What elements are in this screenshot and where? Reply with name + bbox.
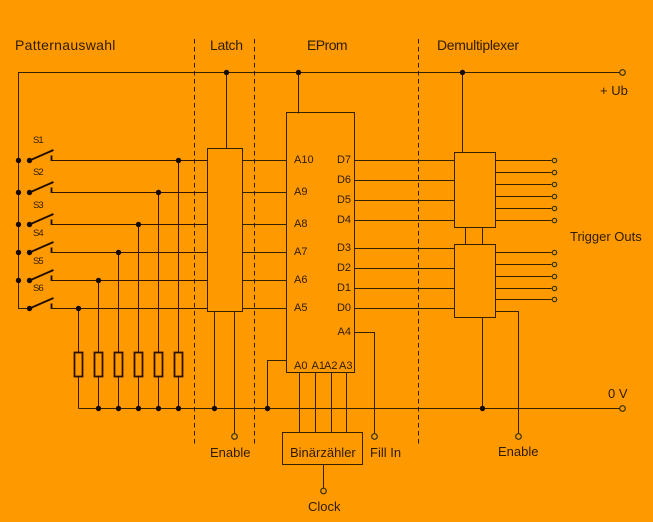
wire tap S1 to R6 (178, 161, 180, 353)
resistor R4 (135, 353, 143, 377)
switch levers and contacts (30, 150, 54, 309)
wire S3 row (52, 224, 208, 226)
wire D7 (355, 160, 455, 162)
svg-text:D4: D4 (337, 214, 351, 226)
wire latch-eprom A5 (243, 308, 287, 310)
node S2 bus (16, 190, 21, 195)
switch S6 contact (51, 304, 53, 310)
node S3 bus (16, 222, 21, 227)
switch S1 lever (30, 150, 54, 161)
switch S2 contact (51, 188, 53, 194)
svg-text:0 V: 0 V (608, 386, 628, 401)
svg-text:D0: D0 (337, 302, 351, 314)
wire D1 (355, 288, 455, 290)
resistor R5 (155, 353, 163, 377)
node S1 pole (27, 158, 32, 163)
terminal trigger 8 (552, 262, 556, 266)
node S4 pole (27, 250, 32, 255)
wire demux lower to 0V (482, 318, 484, 409)
node S3 pole (27, 222, 32, 227)
wire demux top to +Ub (462, 73, 464, 153)
wire tap S6 to R1 (78, 309, 80, 353)
terminal trigger 7 (552, 250, 556, 254)
svg-text:EProm: EProm (307, 37, 347, 53)
svg-text:S4: S4 (33, 228, 43, 239)
terminal fill in (372, 434, 378, 440)
svg-text:Enable: Enable (498, 444, 538, 459)
svg-text:A9: A9 (294, 186, 307, 198)
latch U1 (208, 149, 243, 312)
svg-text:Demultiplexer: Demultiplexer (437, 37, 519, 53)
node S3 tap (136, 222, 141, 227)
node latch top rail (224, 70, 229, 75)
wire tap S5 to R2 (98, 281, 100, 353)
demultiplexer U3 upper (455, 153, 496, 228)
switch S6 lever (30, 298, 54, 309)
wire latch-eprom A9 (243, 192, 287, 194)
wire latch-eprom A10 (243, 160, 287, 162)
wire D3 (355, 248, 455, 250)
terminal clock (321, 488, 327, 494)
wire demux interconnect right (482, 228, 484, 245)
section divider dashed line 3 (418, 39, 420, 444)
svg-text:A1: A1 (312, 360, 325, 372)
node demux 0V (480, 406, 485, 411)
node R6 0V (176, 406, 181, 411)
wire trigger out 4 (496, 196, 552, 198)
svg-text:S1: S1 (33, 135, 43, 146)
wire D2 (355, 268, 455, 270)
resistor R3 (115, 353, 123, 377)
terminal latch enable (232, 434, 238, 440)
terminal circles (232, 70, 626, 494)
resistor R6 (175, 353, 183, 377)
wire clock (323, 465, 325, 489)
node R3 0V (116, 406, 121, 411)
wire R5 bottom to 0V (158, 377, 160, 409)
wire latch enable (234, 312, 236, 434)
node eprom 0V (265, 406, 270, 411)
terminal trigger 5 (552, 206, 556, 210)
wire A2 to counter (331, 373, 333, 433)
svg-text:Latch: Latch (210, 37, 243, 53)
node S4 bus (16, 250, 21, 255)
svg-text:A5: A5 (294, 302, 307, 314)
svg-text:D3: D3 (337, 242, 351, 254)
node R2 0V (96, 406, 101, 411)
svg-text:+ Ub: + Ub (600, 83, 628, 98)
svg-text:Enable: Enable (210, 445, 250, 460)
node S6 pole (27, 306, 32, 311)
terminal trigger 3 (552, 182, 556, 186)
terminal trigger 1 (552, 158, 556, 162)
wire R6 bottom to 0V (178, 377, 180, 409)
node S6 tap (76, 306, 81, 311)
switch S3 contact (51, 220, 53, 226)
svg-text:Patternauswahl: Patternauswahl (15, 37, 116, 53)
wire S2 row (52, 192, 208, 194)
svg-text:S6: S6 (33, 283, 43, 294)
terminal trigger 11 (552, 297, 556, 301)
section divider dashed line 1 (194, 39, 196, 444)
wire latch-eprom A7 (243, 252, 287, 254)
wire R3 bottom to 0V (118, 377, 120, 409)
node S4 tap (116, 250, 121, 255)
wire tap S4 to R3 (118, 253, 120, 353)
svg-text:Clock: Clock (308, 499, 341, 514)
switch S2 lever (30, 182, 54, 193)
wire A4 to Fill In (355, 333, 375, 434)
demultiplexer U4 lower (455, 245, 496, 318)
node eprom top rail (296, 70, 301, 75)
svg-text:Fill In: Fill In (370, 445, 401, 460)
wire A0 to counter (299, 373, 301, 433)
node S5 tap (96, 278, 101, 283)
resistor R1 (75, 353, 83, 377)
wire S6 row (52, 308, 208, 310)
svg-text:D5: D5 (337, 194, 351, 206)
switch S3 lever (30, 214, 54, 225)
wire trigger out 8 (496, 264, 552, 266)
node S2 pole (27, 190, 32, 195)
binary counter U5 (283, 433, 363, 465)
node latch 0V (212, 406, 217, 411)
terminal demux enable (516, 434, 522, 440)
node S2 tap (156, 190, 161, 195)
wire trigger out 5 (496, 208, 552, 210)
wire latch top to +Ub (226, 73, 228, 149)
wire S4 row (52, 252, 208, 254)
terminal trigger 9 (552, 274, 556, 278)
wire latch bottom to 0V (214, 312, 216, 409)
wire latch-eprom A8 (243, 224, 287, 226)
svg-text:A4: A4 (338, 326, 351, 338)
wire D5 (355, 200, 455, 202)
wire S5 row (52, 280, 208, 282)
wire trigger out 9 (496, 276, 552, 278)
wire D4 (355, 220, 455, 222)
svg-text:D2: D2 (337, 262, 351, 274)
wire trigger out 10 (496, 288, 552, 290)
wire trigger out 6 (496, 220, 552, 222)
wire R2 bottom to 0V (98, 377, 100, 409)
terminal trigger 4 (552, 194, 556, 198)
node R4 0V (136, 406, 141, 411)
wire S1 row (52, 160, 208, 162)
node S5 bus (16, 278, 21, 283)
svg-text:A8: A8 (294, 218, 307, 230)
wire trigger out 1 (496, 160, 552, 162)
svg-text:A3: A3 (339, 360, 352, 372)
resistor R2 (95, 353, 103, 377)
EPROM U2 (287, 113, 355, 373)
node S1 bus (16, 158, 21, 163)
switch S1 contact (51, 156, 53, 162)
wire eprom left stub to 0V (268, 361, 287, 409)
switch rows: wires (52, 161, 208, 409)
svg-text:S3: S3 (33, 200, 43, 211)
node R5 0V (156, 406, 161, 411)
svg-text:A10: A10 (294, 154, 314, 166)
svg-text:Trigger Outs: Trigger Outs (570, 229, 642, 244)
node S5 pole (27, 278, 32, 283)
wire tap S2 to R5 (158, 193, 160, 353)
wire R1 bottom to 0V (78, 377, 80, 409)
wire D6 (355, 180, 455, 182)
wire +Ub top rail (19, 73, 620, 309)
wire trigger out 7 (496, 252, 552, 254)
wire tap S3 to R4 (138, 225, 140, 353)
svg-text:D1: D1 (337, 282, 351, 294)
terminal trigger 6 (552, 218, 556, 222)
wire eprom top to +Ub (298, 73, 300, 114)
switch S5 lever (30, 270, 54, 281)
svg-text:S2: S2 (33, 167, 43, 178)
wire A3 to counter (346, 373, 348, 433)
wire trigger out 11 (496, 299, 552, 301)
terminal 0V (620, 406, 626, 412)
node S1 tap (176, 158, 181, 163)
wire A1 to counter (315, 373, 317, 433)
svg-text:Binärzähler: Binärzähler (290, 445, 356, 460)
terminal trigger 10 (552, 286, 556, 290)
section divider dashed line 2 (254, 39, 256, 444)
wire trigger out 3 (496, 184, 552, 186)
wire demux enable (496, 312, 519, 434)
svg-text:A0: A0 (294, 360, 307, 372)
node demux top rail (460, 70, 465, 75)
svg-text:D6: D6 (337, 174, 351, 186)
wire 0V bottom rail (79, 408, 620, 410)
switch S4 lever (30, 242, 54, 253)
wire R4 bottom to 0V (138, 377, 140, 409)
switch S5 contact (51, 276, 53, 282)
svg-text:A6: A6 (294, 274, 307, 286)
svg-text:A7: A7 (294, 246, 307, 258)
switch S4 contact (51, 248, 53, 254)
resistors R1-R6 (75, 353, 183, 377)
svg-text:S5: S5 (33, 256, 43, 267)
wire demux interconnect left (465, 228, 467, 245)
terminal +Ub (620, 70, 626, 76)
svg-text:D7: D7 (337, 154, 351, 166)
terminal trigger 2 (552, 170, 556, 174)
svg-text:A2: A2 (324, 360, 337, 372)
wire trigger out 2 (496, 172, 552, 174)
wire D0 (355, 308, 455, 310)
wire latch-eprom A6 (243, 280, 287, 282)
